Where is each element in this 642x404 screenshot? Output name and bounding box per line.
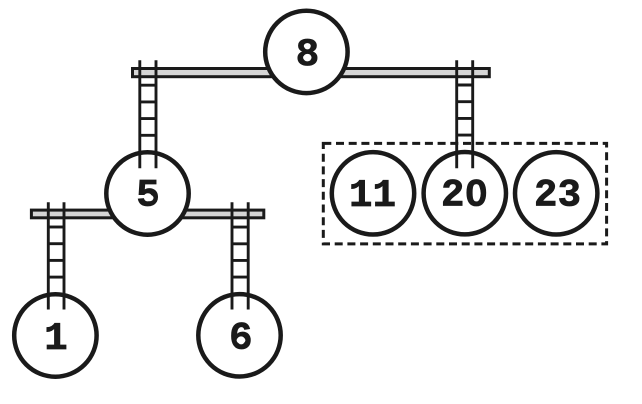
label 5 [136,174,159,218]
dashed box around nodes 11 20 23 [323,143,606,244]
node 6 circle [198,294,280,376]
node 23 circle [515,152,597,234]
L2 rung 4 [457,134,473,137]
L2 rung 2 [457,100,473,103]
L4 rung 4 [232,276,248,279]
L1 rung 4 [140,134,156,137]
L4 rung 2 [232,242,248,245]
L1 rung 2 [140,100,156,103]
L2 rung 1 [457,84,473,87]
L3 rung 4 [48,276,64,279]
ladder string L4 (lower beam right, to node 6) [232,202,248,309]
L2 rung 3 [457,117,473,120]
svg-text:23: 23 [534,174,581,218]
L3 rung 1 [48,226,64,229]
L3 rung 2 [48,242,64,245]
svg-text:11: 11 [349,174,396,218]
ladder string L1 (top beam left, to node 5) [140,60,156,168]
L3 left rail [47,202,50,309]
label 1 [44,317,67,361]
node 11 circle [332,152,414,234]
L4 rung 1 [232,226,248,229]
beam B1 (top crossbar) [133,69,490,77]
label 20 [441,174,488,218]
svg-text:1: 1 [44,317,67,361]
ladder string L2 (top beam right, to node 20) [457,60,473,168]
L1 left rail [138,60,141,168]
label 8 [296,33,319,77]
L3 right rail [63,202,66,309]
node 1 circle [14,294,96,376]
L4 right rail [247,202,250,309]
label 23 [534,174,581,218]
L4 left rail [231,202,234,309]
L1 rung 3 [140,117,156,120]
L4 rung 3 [232,259,248,262]
L1 right rail [155,60,158,168]
label 11 [349,174,396,218]
svg-text:20: 20 [441,174,488,218]
L2 right rail [471,60,474,168]
L2 left rail [455,60,458,168]
L3 rung 3 [48,259,64,262]
label 6 [229,316,252,360]
node 8 circle [265,11,347,93]
node 5 circle [106,152,188,234]
L1 rung 1 [140,84,156,87]
ladder string L3 (lower beam left, to node 1) [48,202,64,309]
beam B2 (lower-left crossbar) [31,210,263,218]
node 20 circle [424,152,506,234]
